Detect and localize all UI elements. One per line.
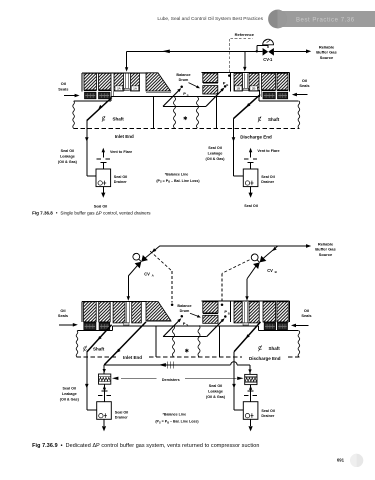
fig1 shaft center box	[153, 97, 155, 129]
svg-text:Seals: Seals	[301, 313, 311, 318]
fig1 inlet oil seal ring A	[85, 92, 97, 99]
svg-text:*Balance Line: *Balance Line	[165, 172, 189, 176]
fig2 discharge feed channel	[243, 302, 245, 323]
fig2 Ps tap dot	[181, 315, 184, 318]
fig2 inlet feed channel	[125, 302, 127, 323]
fig2 seal block 3A	[113, 302, 125, 323]
fig1 discharge labyrinth block C	[262, 73, 276, 90]
fig1 seal 1A block	[131, 73, 140, 91]
fig2 discharge drain vertical	[233, 352, 235, 410]
fig2 inlet seal housing	[82, 300, 146, 302]
fig1 oil seals arrow left	[64, 95, 75, 97]
fig2 CVB sensing dashed line	[222, 260, 250, 274]
fig2 demisters pointer right	[185, 377, 236, 379]
fig2 discharge labyrinth block C	[263, 302, 276, 322]
fig1 shaft center break waves	[173, 97, 175, 128]
fig2 oil seals arrow right	[295, 324, 309, 326]
fig2 right demister riser	[249, 365, 251, 375]
fig1 pipe arrow to source	[306, 49, 311, 53]
fig1 discharge seal oil drainer box	[243, 169, 258, 187]
svg-text:Inlet End: Inlet End	[115, 134, 134, 139]
svg-text:Best Practice 7.36: Best Practice 7.36	[296, 18, 355, 24]
fig1 inlet labyrinth block B	[99, 73, 112, 90]
svg-text:Vent to Flare: Vent to Flare	[257, 149, 279, 153]
svg-text:Source: Source	[320, 55, 334, 60]
svg-text:Reference: Reference	[235, 32, 255, 37]
fig1 inlet seal oil drainer box	[96, 169, 111, 187]
fig1 seal 1B block	[234, 73, 243, 91]
svg-text:Source: Source	[319, 252, 333, 257]
svg-text:Leakage: Leakage	[60, 154, 75, 158]
fig1 balance drum trapezoid	[146, 73, 171, 91]
fig1 right feed drop to discharge seal	[244, 51, 246, 67]
fig1 balance drum pointer	[189, 83, 198, 87]
fig2 inlet labyrinth block B	[99, 302, 111, 322]
fig2 discharge leakage drain diagonal	[234, 322, 261, 352]
fig2 inlet labyrinth block A	[84, 302, 97, 322]
svg-text:Fig 7.36.9•Dedicated ΔP contro: Fig 7.36.9•Dedicated ΔP control buffer g…	[32, 443, 259, 449]
fig2 shaft center break waves	[172, 325, 174, 356]
fig1 shaft bottom dashed line	[74, 127, 300, 129]
svg-text:B: B	[226, 83, 228, 87]
svg-text:Vent to Flare: Vent to Flare	[110, 150, 132, 154]
svg-text:Drum: Drum	[179, 78, 189, 82]
fig2 shaft center box	[155, 326, 157, 357]
svg-text:Shaft: Shaft	[93, 346, 105, 351]
svg-text:*Balance Line: *Balance Line	[163, 412, 187, 416]
svg-text:(Oil & Gas): (Oil & Gas)	[206, 395, 226, 399]
fig1 discharge leakage channel	[258, 90, 260, 97]
fig1 balance line	[163, 105, 206, 107]
fig2 demisters pointer left	[121, 377, 157, 379]
fig1 inlet feed channel	[124, 73, 126, 90]
fig2 discharge oil seal ring A	[264, 323, 275, 330]
svg-text:C: C	[102, 117, 106, 123]
fig1 discharge drainer outlet arrow	[250, 187, 252, 193]
svg-text:Seals: Seals	[58, 86, 68, 91]
fig2 discharge drainer outlet arrow	[250, 419, 252, 426]
fig1 shaft top line discharge	[259, 100, 299, 102]
fig2 discharge oil seal ring B	[277, 323, 287, 330]
fig2 vent header	[104, 364, 231, 366]
svg-text:Balance: Balance	[177, 304, 191, 308]
svg-text:Leakage: Leakage	[208, 151, 223, 155]
fig2 shaft top line inlet	[78, 330, 113, 332]
svg-text:Drainer: Drainer	[261, 414, 274, 418]
header circle badge	[268, 10, 287, 29]
fig2 CVA sensing dashed line	[150, 251, 172, 271]
svg-text:Balance: Balance	[176, 73, 190, 77]
svg-text:Shaft: Shaft	[269, 346, 281, 351]
fig2 vent header flow arrow	[158, 363, 166, 367]
fig2 right demister	[245, 374, 257, 384]
header gray tab	[279, 11, 375, 27]
svg-text:CV-1: CV-1	[263, 57, 273, 62]
fig2 inlet drain vertical	[86, 352, 88, 410]
svg-text:(Oil & Gas): (Oil & Gas)	[58, 160, 78, 164]
fig1 balance labyrinth lower block	[203, 86, 218, 94]
svg-text:Seals: Seals	[299, 83, 309, 88]
svg-text:691: 691	[337, 458, 345, 463]
fig1 discharge oil seal ring A	[263, 92, 275, 99]
fig2 supply branch to CVA	[145, 246, 160, 258]
fig1 seal 2B block	[249, 73, 259, 91]
fig2 seal block 1B	[234, 302, 242, 323]
svg-text:C: C	[258, 117, 262, 123]
svg-text:Seal Oil: Seal Oil	[244, 204, 258, 208]
fig1 discharge feed channel	[244, 73, 246, 90]
fig1 center asterisk	[184, 116, 186, 120]
svg-text:Leakage: Leakage	[208, 389, 223, 393]
svg-text:Leakage: Leakage	[62, 392, 77, 396]
fig1 left feed drop to inlet seal	[126, 51, 128, 67]
fig2 seal block 2B	[249, 302, 259, 323]
fig1 inlet labyrinth block A	[84, 73, 97, 90]
fig2 discharge housing top	[202, 300, 290, 302]
fig1 discharge oil seal ring B	[278, 92, 288, 99]
fig1 inlet oil seal ring B	[99, 92, 111, 99]
fig1 inlet leakage drain diagonal	[87, 98, 112, 121]
svg-text:Seal Oil: Seal Oil	[208, 146, 222, 150]
svg-text:Seal Oil: Seal Oil	[261, 409, 275, 413]
svg-text:1B: 1B	[236, 87, 240, 91]
fig2 right demister to drainer stack	[250, 385, 252, 402]
fig2 oil seals arrow left	[59, 324, 73, 326]
fig2 control valve CVB	[260, 256, 267, 263]
svg-text:Buffer Gas: Buffer Gas	[316, 50, 337, 55]
fig1 discharge leakage drain diagonal	[234, 95, 261, 119]
svg-text:Discharge End: Discharge End	[240, 134, 272, 139]
svg-text:2B: 2B	[252, 87, 256, 91]
fig1 inlet drain vertical	[86, 121, 88, 176]
svg-text:Demisters: Demisters	[162, 378, 180, 382]
fig2 shaft bore line	[113, 325, 259, 327]
fig2 balance labyrinth upper block	[203, 302, 218, 313]
fig2 left demister riser	[103, 365, 105, 374]
fig2 left demister	[99, 374, 111, 384]
svg-text:B: B	[228, 312, 230, 316]
fig2 buffer gas supply header	[160, 245, 307, 247]
svg-text:(Oil & Gas): (Oil & Gas)	[60, 397, 80, 401]
fig2 inlet vent diagonal	[104, 322, 146, 365]
fig2 discharge seal oil drainer box	[243, 402, 258, 420]
fig1 buffer gas supply pipe	[127, 50, 263, 52]
fig1 shaft break right	[298, 101, 300, 128]
svg-text:Drainer: Drainer	[115, 416, 128, 420]
fig1 control valve CV-1	[256, 46, 258, 52]
fig1 discharge labyrinth block D	[277, 73, 288, 90]
svg-text:Reliable: Reliable	[318, 241, 334, 246]
svg-text:Drum: Drum	[180, 309, 190, 313]
fig2 supply branch to CVB	[264, 246, 278, 258]
fig1 balance labyrinth upper block	[203, 73, 218, 82]
fig2 shaft top line discharge	[259, 330, 299, 332]
fig1 Pb tap dot	[224, 85, 227, 88]
fig2 center asterisk	[186, 349, 188, 353]
fig2 inlet leakage drain diagonal	[87, 325, 112, 352]
fig2 discharge labyrinth block D	[277, 302, 288, 322]
svg-text:Fig 7.36.8•Single buffer gas Δ: Fig 7.36.8•Single buffer gas ΔP control,…	[32, 210, 151, 215]
fig1 shaft bore line	[111, 96, 259, 98]
fig2 Pb tap dot	[224, 315, 227, 318]
svg-text:CV: CV	[267, 268, 273, 273]
fig2 CVA outlet line	[128, 266, 137, 276]
fig1 inlet drainer vent to flare	[102, 163, 104, 169]
fig2 shaft bottom dashed line	[77, 356, 117, 358]
svg-text:Shaft: Shaft	[268, 117, 280, 122]
fig1 reference dashed line	[230, 38, 253, 40]
fig2 shaft break right	[298, 331, 300, 357]
svg-text:Seal Oil: Seal Oil	[115, 410, 129, 414]
svg-text:Discharge End: Discharge End	[249, 356, 281, 361]
svg-text:Drainer: Drainer	[261, 180, 274, 184]
svg-text:CV: CV	[144, 272, 150, 277]
fig2 balance labyrinth lower block	[203, 315, 218, 323]
fig2 control valve CVA	[141, 255, 148, 262]
fig1 inlet leakage channel	[110, 90, 112, 97]
fig1 seal 3A block	[114, 73, 124, 91]
fig1 Ps tap dot	[180, 86, 183, 89]
svg-text:Seal Oil: Seal Oil	[94, 205, 108, 209]
footer circle	[350, 454, 363, 467]
svg-text:Reliable: Reliable	[319, 44, 335, 49]
fig2 seal block 1A	[132, 302, 142, 323]
fig2 inlet drainer outlet arrow	[103, 419, 105, 426]
svg-text:Inlet End: Inlet End	[123, 355, 142, 360]
fig2 balance line	[163, 336, 207, 338]
fig2 balance drum trapezoid	[146, 301, 171, 320]
svg-text:Seal Oil: Seal Oil	[61, 149, 75, 153]
svg-text:Drainer: Drainer	[114, 180, 127, 184]
svg-text:Seals: Seals	[58, 313, 68, 318]
svg-text:Buffer Gas: Buffer Gas	[315, 247, 336, 252]
svg-text:C: C	[258, 346, 262, 352]
fig2 CVB outlet line	[247, 266, 256, 279]
fig1 discharge drainer vent to flare	[250, 163, 252, 169]
fig2 shaft break left	[76, 331, 78, 357]
fig1 pipe flow arrow left	[162, 50, 170, 54]
svg-text:(Oil & Gas): (Oil & Gas)	[205, 157, 225, 161]
svg-text:Shaft: Shaft	[113, 117, 125, 122]
svg-text:Seal Oil: Seal Oil	[261, 175, 275, 179]
svg-text:Lube, Seal and Control Oil Sys: Lube, Seal and Control Oil System Best P…	[157, 16, 263, 22]
fig1 oil seals arrow right	[297, 94, 308, 96]
fig2 inlet seal oil drainer box	[97, 402, 112, 420]
fig1 shaft break left	[73, 101, 75, 128]
svg-text:Seal Oil: Seal Oil	[209, 384, 223, 388]
fig1 inlet drainer outlet arrow	[102, 187, 104, 193]
fig1 discharge drain vertical	[233, 119, 235, 176]
fig2 inlet oil seal ring A	[84, 323, 96, 330]
fig2 inlet oil seal ring B	[99, 323, 110, 330]
fig2 vent header union symbol	[166, 362, 168, 369]
fig2 left demister to drainer stack	[103, 384, 105, 402]
fig2 balance drum pointer	[190, 313, 198, 316]
fig1 discharge housing top	[202, 71, 290, 73]
fig1 shaft top line inlet	[74, 100, 111, 102]
svg-text:Seal Oil: Seal Oil	[114, 175, 128, 179]
svg-text:Seal Oil: Seal Oil	[63, 386, 77, 390]
fig1 inlet seal housing	[82, 72, 146, 74]
